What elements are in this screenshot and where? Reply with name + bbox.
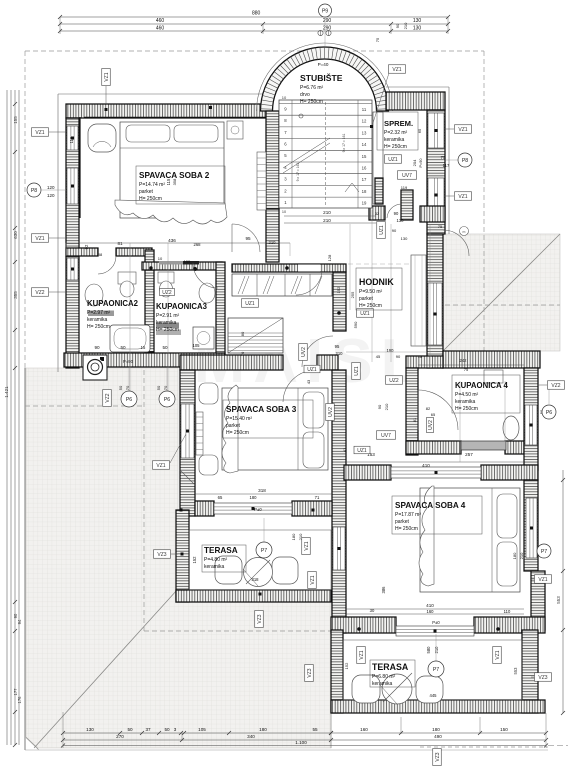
svg-text:UZ2: UZ2 (162, 290, 172, 296)
svg-text:152: 152 (336, 286, 341, 293)
svg-text:UV7: UV7 (402, 173, 412, 179)
svg-text:16: 16 (362, 166, 367, 171)
svg-text:553: 553 (556, 596, 561, 604)
svg-text:210: 210 (336, 351, 344, 356)
svg-text:1.100: 1.100 (295, 740, 307, 745)
svg-text:95: 95 (245, 236, 251, 241)
svg-text:90: 90 (13, 613, 18, 618)
svg-text:H= 250cm: H= 250cm (156, 327, 179, 333)
svg-text:30: 30 (370, 608, 375, 613)
svg-text:150: 150 (500, 727, 508, 732)
svg-text:880: 880 (252, 11, 261, 17)
svg-text:H= 250cm: H= 250cm (300, 99, 323, 105)
svg-text:130: 130 (86, 727, 94, 732)
svg-text:12: 12 (362, 119, 367, 124)
svg-text:13: 13 (362, 130, 367, 135)
svg-text:50: 50 (164, 727, 170, 732)
svg-text:keramika: keramika (156, 320, 177, 326)
svg-text:HODNIK: HODNIK (359, 277, 394, 287)
svg-text:15: 15 (362, 154, 367, 159)
svg-text:VZ1: VZ1 (538, 577, 547, 583)
svg-text:P6: P6 (126, 397, 132, 403)
svg-text:55: 55 (312, 727, 318, 732)
svg-text:VZ1: VZ1 (458, 127, 467, 133)
svg-text:90: 90 (94, 345, 100, 350)
svg-text:H= 250cm: H= 250cm (455, 406, 478, 412)
svg-text:P=4.80 m²: P=4.80 m² (204, 557, 228, 563)
svg-text:75: 75 (438, 224, 443, 229)
svg-text:P7: P7 (261, 548, 267, 554)
svg-text:268: 268 (194, 242, 202, 247)
svg-text:H= 250cm: H= 250cm (226, 430, 249, 436)
svg-text:290: 290 (323, 18, 332, 24)
svg-text:VZ3: VZ3 (538, 675, 547, 681)
svg-text:82: 82 (426, 406, 431, 411)
svg-text:210: 210 (403, 22, 408, 29)
svg-text:386: 386 (381, 586, 386, 594)
svg-text:10: 10 (282, 210, 286, 214)
svg-text:VZ1: VZ1 (310, 575, 316, 584)
svg-text:P7: P7 (433, 667, 439, 673)
svg-text:3: 3 (174, 727, 177, 732)
svg-text:318: 318 (258, 488, 266, 493)
svg-text:VZ1: VZ1 (35, 236, 44, 242)
svg-text:VZ1: VZ1 (35, 130, 44, 136)
svg-text:152: 152 (192, 556, 197, 564)
svg-text:160: 160 (427, 609, 435, 614)
svg-text:TERASA: TERASA (204, 546, 238, 555)
svg-text:SPAVACA SOBA 3: SPAVACA SOBA 3 (226, 405, 297, 414)
svg-text:37: 37 (145, 727, 151, 732)
svg-text:drvo: drvo (300, 92, 310, 98)
svg-text:90: 90 (396, 354, 401, 359)
svg-text:H= 250cm: H= 250cm (139, 196, 162, 202)
svg-text:204: 204 (412, 159, 417, 166)
svg-text:H= 250cm: H= 250cm (395, 526, 418, 532)
svg-text:88: 88 (98, 252, 103, 257)
svg-text:H= 250cm: H= 250cm (87, 324, 110, 330)
svg-text:VZ3: VZ3 (157, 552, 166, 558)
svg-text:VZ1: VZ1 (392, 67, 401, 73)
svg-text:11: 11 (362, 107, 367, 112)
svg-text:590: 590 (353, 321, 358, 328)
svg-text:P=90: P=90 (123, 359, 134, 364)
svg-text:UZ1: UZ1 (245, 301, 255, 307)
svg-text:340: 340 (247, 734, 255, 739)
svg-text:81: 81 (117, 241, 123, 246)
svg-text:130: 130 (401, 236, 408, 241)
svg-text:210: 210 (519, 552, 524, 559)
svg-text:P=4.50 m²: P=4.50 m² (455, 392, 479, 398)
svg-text:UV2: UV2 (301, 347, 307, 357)
svg-text:120: 120 (47, 193, 55, 198)
svg-text:70: 70 (163, 385, 168, 390)
svg-text:155: 155 (184, 259, 191, 264)
svg-text:parket: parket (395, 519, 410, 525)
svg-text:180: 180 (512, 552, 517, 559)
svg-text:65: 65 (218, 495, 223, 500)
svg-text:UV2: UV2 (428, 420, 434, 430)
svg-text:210: 210 (434, 646, 439, 654)
svg-text:318: 318 (252, 577, 260, 582)
svg-text:43: 43 (306, 379, 311, 384)
svg-text:80: 80 (240, 331, 245, 336)
svg-text:VZ3: VZ3 (435, 752, 441, 761)
svg-text:105: 105 (193, 343, 201, 348)
svg-text:90: 90 (392, 228, 397, 233)
svg-text:117: 117 (443, 163, 450, 168)
svg-text:45: 45 (376, 354, 381, 359)
svg-text:10: 10 (282, 95, 287, 100)
svg-text:257: 257 (465, 452, 473, 457)
svg-text:445: 445 (430, 693, 438, 698)
svg-text:410: 410 (426, 603, 434, 608)
svg-text:460: 460 (156, 26, 165, 32)
svg-text:115: 115 (69, 136, 74, 143)
svg-text:75: 75 (464, 367, 469, 372)
svg-text:50: 50 (120, 345, 126, 350)
svg-text:KUPAONICA3: KUPAONICA3 (156, 302, 208, 311)
svg-text:H= 250cm: H= 250cm (359, 303, 382, 309)
svg-text:70: 70 (125, 385, 130, 390)
svg-text:TERASA: TERASA (372, 662, 409, 672)
svg-text:P6: P6 (546, 410, 552, 416)
svg-text:90: 90 (394, 211, 399, 216)
svg-text:9 x 17 = 161: 9 x 17 = 161 (342, 134, 346, 153)
svg-text:UZ1: UZ1 (360, 311, 370, 317)
svg-text:580: 580 (426, 646, 431, 654)
svg-text:75: 75 (441, 155, 446, 160)
svg-text:STUBIŠTE: STUBIŠTE (300, 72, 343, 83)
svg-text:15: 15 (141, 345, 146, 350)
svg-text:176: 176 (17, 696, 22, 704)
svg-text:P=90: P=90 (419, 159, 423, 168)
svg-text:UZ2: UZ2 (389, 378, 399, 384)
svg-text:P=2.91 m²: P=2.91 m² (156, 313, 180, 319)
svg-text:VZ1: VZ1 (104, 72, 110, 81)
svg-text:P=6.80 m²: P=6.80 m² (372, 674, 396, 680)
svg-text:VZ1: VZ1 (458, 194, 467, 200)
svg-text:SPREM.: SPREM. (384, 119, 413, 128)
svg-text:UV2: UV2 (328, 407, 334, 417)
svg-text:18: 18 (362, 189, 367, 194)
svg-text:90: 90 (395, 23, 400, 28)
svg-text:210: 210 (269, 240, 277, 245)
svg-text:keramika: keramika (455, 399, 476, 405)
svg-text:553: 553 (513, 667, 518, 675)
svg-text:110: 110 (504, 609, 511, 614)
svg-text:90: 90 (377, 404, 382, 409)
svg-text:UZ1: UZ1 (307, 367, 317, 373)
svg-text:P±0: P±0 (254, 507, 262, 512)
svg-text:P8: P8 (462, 158, 468, 164)
svg-text:SPAVACA SOBA 2: SPAVACA SOBA 2 (139, 171, 210, 180)
svg-text:152: 152 (344, 662, 349, 669)
svg-text:255: 255 (350, 291, 355, 298)
svg-text:P=17.87 m²: P=17.87 m² (395, 512, 421, 518)
svg-text:parket: parket (226, 423, 241, 429)
svg-text:81: 81 (412, 417, 417, 422)
svg-text:P9: P9 (322, 8, 328, 14)
svg-text:210: 210 (323, 210, 331, 215)
svg-text:9 x 17 = 161: 9 x 17 = 161 (296, 163, 300, 182)
svg-text:UZ1: UZ1 (388, 157, 398, 163)
svg-text:UZ1: UZ1 (354, 366, 360, 376)
svg-text:VZ3: VZ3 (307, 668, 313, 677)
svg-text:155: 155 (13, 116, 18, 124)
svg-text:490: 490 (434, 734, 442, 739)
svg-text:VZ1: VZ1 (156, 463, 165, 469)
svg-text:VZ2: VZ2 (551, 383, 560, 389)
svg-text:parket: parket (359, 296, 374, 302)
svg-text:70: 70 (240, 351, 245, 356)
svg-text:32: 32 (375, 212, 379, 216)
svg-text:VZ1: VZ1 (304, 541, 310, 550)
svg-text:355: 355 (13, 291, 18, 299)
svg-text:P=2.32 m²: P=2.32 m² (384, 130, 408, 136)
svg-text:180: 180 (291, 533, 296, 540)
svg-text:KUPAONICA2: KUPAONICA2 (87, 299, 139, 308)
svg-text:KUPAONICA 4: KUPAONICA 4 (455, 381, 509, 390)
svg-text:parket: parket (139, 189, 154, 195)
svg-text:50: 50 (162, 345, 168, 350)
svg-text:210: 210 (384, 403, 389, 410)
svg-text:128: 128 (327, 254, 332, 261)
svg-text:180: 180 (432, 727, 440, 732)
svg-text:270: 270 (116, 734, 124, 739)
svg-text:m: m (463, 230, 466, 234)
svg-text:P±0: P±0 (432, 620, 440, 625)
svg-text:180: 180 (250, 495, 258, 500)
svg-text:177: 177 (13, 688, 18, 696)
svg-text:UZ1: UZ1 (357, 448, 367, 454)
svg-text:180: 180 (259, 727, 267, 732)
svg-text:P=14.74 m²: P=14.74 m² (139, 182, 165, 188)
svg-text:UZ1: UZ1 (379, 225, 385, 235)
svg-text:1.421: 1.421 (4, 386, 9, 398)
svg-text:95: 95 (335, 344, 340, 349)
svg-text:410: 410 (422, 463, 430, 468)
svg-text:P=40: P=40 (318, 62, 329, 67)
svg-text:keramika: keramika (204, 564, 225, 570)
svg-text:UV7: UV7 (381, 433, 391, 439)
svg-text:290: 290 (323, 26, 332, 32)
svg-text:VZ2: VZ2 (105, 393, 111, 402)
svg-text:keramika: keramika (372, 681, 393, 687)
svg-text:65: 65 (431, 412, 436, 417)
svg-text:VZ1: VZ1 (495, 650, 501, 659)
svg-text:190: 190 (387, 348, 395, 353)
svg-text:630: 630 (13, 231, 18, 239)
svg-text:14: 14 (362, 142, 367, 147)
svg-text:P=9.50 m²: P=9.50 m² (359, 289, 383, 295)
svg-text:242: 242 (460, 358, 468, 363)
svg-text:P8: P8 (31, 188, 37, 194)
svg-text:105: 105 (198, 727, 206, 732)
svg-text:VZ2: VZ2 (35, 290, 44, 296)
svg-text:50: 50 (118, 385, 123, 390)
svg-text:P=15.40 m²: P=15.40 m² (226, 416, 252, 422)
svg-text:119: 119 (401, 185, 408, 190)
svg-text:75: 75 (375, 37, 380, 42)
svg-text:P=6.76 m²: P=6.76 m² (300, 85, 324, 91)
svg-text:P6: P6 (164, 397, 170, 403)
svg-text:H= 250cm: H= 250cm (384, 144, 407, 150)
svg-text:130: 130 (413, 26, 422, 32)
svg-text:120: 120 (47, 185, 55, 190)
svg-text:41: 41 (342, 447, 347, 452)
svg-text:P7: P7 (541, 549, 547, 555)
svg-text:keramika: keramika (384, 137, 405, 143)
svg-text:SPAVACA SOBA 4: SPAVACA SOBA 4 (395, 501, 466, 510)
svg-text:210: 210 (323, 218, 331, 223)
svg-text:VZ1: VZ1 (359, 650, 365, 659)
svg-text:50: 50 (156, 385, 161, 390)
svg-text:50: 50 (127, 727, 133, 732)
svg-text:18: 18 (418, 354, 423, 359)
svg-text:VZ3: VZ3 (257, 614, 263, 623)
svg-text:130: 130 (413, 18, 422, 24)
svg-text:92: 92 (84, 244, 89, 249)
svg-text:460: 460 (156, 18, 165, 24)
svg-text:130: 130 (397, 218, 405, 223)
svg-text:71: 71 (315, 495, 320, 500)
svg-text:17: 17 (362, 177, 367, 182)
svg-text:P=2.97 m²: P=2.97 m² (87, 310, 111, 316)
svg-text:94: 94 (17, 619, 22, 624)
svg-text:436: 436 (168, 238, 176, 243)
svg-text:160: 160 (360, 727, 368, 732)
svg-text:19: 19 (362, 201, 367, 206)
svg-text:10: 10 (158, 256, 163, 261)
svg-text:keramika: keramika (87, 317, 108, 323)
